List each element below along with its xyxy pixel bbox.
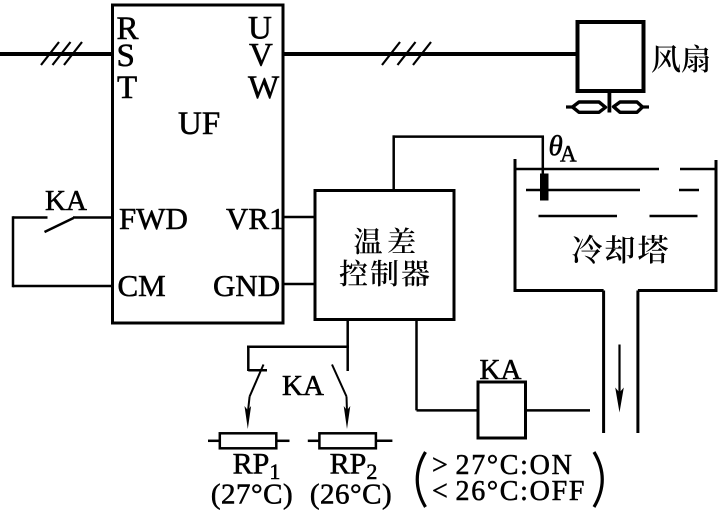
svg-text:W: W (248, 70, 280, 106)
svg-text:GND: GND (213, 268, 280, 303)
svg-text:<26°C:OFF: <26°C:OFF (432, 476, 586, 507)
svg-text:S: S (117, 38, 135, 74)
svg-text:(27°C): (27°C) (211, 479, 293, 511)
svg-text:KA: KA (45, 185, 87, 217)
svg-text:VR1: VR1 (226, 201, 285, 236)
svg-text:T: T (117, 70, 137, 106)
svg-text:V: V (249, 38, 273, 74)
svg-text:A: A (560, 142, 577, 167)
svg-text:FWD: FWD (119, 201, 188, 236)
svg-text:UF: UF (178, 106, 220, 142)
svg-text:CM: CM (118, 268, 166, 303)
svg-text:KA: KA (480, 354, 522, 386)
svg-text:KA: KA (282, 370, 324, 402)
svg-text:(26°C): (26°C) (310, 479, 392, 511)
